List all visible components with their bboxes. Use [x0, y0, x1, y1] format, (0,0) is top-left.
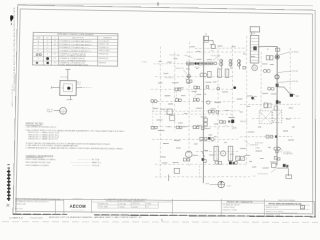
leader label H8a	[244, 140, 259, 146]
svg-text:REDUCED COPY OF MEASURED DRAWI: REDUCED COPY OF MEASURED DRAWING - HANGA…	[49, 216, 142, 219]
junction box J1 detail	[60, 81, 77, 96]
bottom device B4 dark cluster	[229, 161, 237, 164]
device pair M5	[208, 110, 214, 113]
microfilm label gap	[67, 213, 94, 217]
right leader label R3	[277, 81, 298, 83]
wire branch V11	[199, 165, 201, 178]
wire branch V7	[239, 59, 241, 69]
inner border frame	[16, 9, 313, 214]
device pair M2	[175, 99, 181, 102]
detail top conduit stub	[65, 69, 70, 80]
label lead B	[210, 55, 220, 60]
device pair M4c	[194, 86, 200, 89]
left margin sprocket marks	[7, 164, 9, 165]
boxes along riser V1	[204, 118, 207, 126]
title block frame	[16, 199, 314, 219]
light fixture F3	[218, 69, 222, 78]
V2 cluster Q1	[274, 147, 280, 153]
dark cluster on V2 mid	[276, 100, 281, 104]
AECOM logo cell	[63, 198, 91, 216]
leader label H8b	[277, 146, 290, 154]
feeder elbow to arrow	[277, 87, 290, 94]
north arrow circle	[218, 181, 225, 188]
wire jumper H11	[258, 45, 277, 48]
svg-text:TX-116 12/18: TX-116 12/18	[30, 217, 43, 219]
switchgear pair G1	[266, 55, 273, 60]
switch box S1	[205, 34, 216, 52]
light fixture F1	[200, 73, 207, 77]
device M5b	[216, 111, 219, 114]
wiring notes heading	[26, 124, 44, 126]
motor P4	[221, 151, 226, 156]
svg-text:LC-HAER B-31: LC-HAER B-31	[9, 217, 24, 220]
tall fixture P3	[214, 146, 219, 161]
device row N3	[193, 126, 199, 129]
device near ladder	[243, 66, 246, 69]
panel G3	[264, 103, 278, 110]
left edge label	[141, 61, 147, 63]
wire branch V13	[253, 64, 255, 66]
light fixture F4	[225, 69, 229, 78]
bottom right small note	[253, 176, 256, 178]
right leader label R1	[277, 51, 299, 55]
wire dashed H8	[240, 136, 292, 138]
device cluster A2	[185, 79, 192, 83]
column grid dashed horizontals	[150, 51, 251, 178]
sheet bottom heavy border	[13, 214, 315, 216]
lamp pair L2	[229, 60, 232, 66]
wire dashed H6 long	[152, 110, 240, 113]
receptacle R1	[187, 75, 191, 78]
detail left wire with tick	[51, 86, 60, 89]
bottom registration tick	[161, 219, 163, 222]
bottom device B2 dark	[200, 151, 207, 162]
lamp pair L1	[220, 59, 223, 65]
label lead D	[165, 77, 174, 79]
connector stubs	[153, 88, 196, 126]
switchgear pair G2	[263, 69, 270, 72]
left margin x mark	[6, 204, 9, 207]
svg-text:HAER TX-116 SHEET 12: HAER TX-116 SHEET 12	[11, 84, 14, 107]
cluster on H8	[266, 135, 277, 138]
wire riser V1	[203, 36, 205, 183]
detail right labels	[77, 82, 82, 86]
device pair left of V2	[268, 87, 274, 90]
wire dashed H6c right	[252, 118, 300, 120]
bottom device B3	[215, 161, 221, 164]
lamp pair L3	[237, 60, 240, 66]
device left of riser	[201, 127, 204, 130]
device M4	[206, 86, 209, 89]
device pair M1	[151, 100, 157, 103]
V2 box Q3	[272, 163, 276, 167]
small square N5	[174, 168, 179, 173]
feeder switch T4	[276, 84, 279, 87]
bottom paper edge	[2, 221, 318, 224]
junction box J2 top	[204, 36, 213, 45]
feeder dark junction T5	[290, 94, 295, 97]
junction dark dot right	[251, 97, 255, 100]
device pair M3	[193, 98, 199, 101]
title block project cell	[221, 199, 264, 217]
top paper edge	[17, 4, 313, 6]
outlet cluster on H1	[186, 59, 216, 69]
left margin ink blob	[10, 15, 13, 22]
label lead C	[175, 68, 186, 74]
equipment cluster P2 dark	[220, 119, 235, 127]
transformer T1	[252, 65, 258, 71]
top registration tick	[157, 2, 159, 5]
general references list	[25, 157, 101, 167]
wire and conduit code table	[32, 32, 118, 67]
svg-text:PHOTOGRAPHS AND WRITTEN HISTOR: PHOTOGRAPHS AND WRITTEN HISTORICAL AND D…	[13, 7, 16, 91]
wiring notes text	[25, 125, 125, 150]
wire branch V4	[188, 64, 190, 79]
detail label above	[60, 77, 69, 79]
wire dashed H6b right	[240, 103, 300, 105]
device circle M4d	[207, 101, 210, 104]
right leader label R4	[295, 95, 299, 98]
pad label	[240, 120, 248, 123]
column grid dashed verticals	[159, 35, 290, 180]
right leader label R2	[277, 70, 298, 73]
wire branch V6	[230, 59, 232, 69]
detail bottom stub	[66, 95, 72, 104]
circle fixture N4	[185, 151, 192, 158]
general references heading	[26, 155, 55, 158]
wire branch V5	[221, 59, 223, 69]
feeder meter T3	[275, 75, 279, 79]
label lead A	[169, 54, 192, 58]
plan annotation marks	[152, 44, 295, 169]
junction dark dot	[234, 87, 236, 89]
title block record cell	[264, 199, 309, 217]
bottom device B1	[183, 158, 190, 161]
device pair M4b	[175, 88, 181, 91]
bottom right labels	[255, 143, 293, 176]
V2 cluster Q2	[274, 156, 280, 160]
tall fixture P5	[228, 146, 233, 161]
wire branch V10	[167, 175, 169, 182]
scale note	[206, 183, 232, 187]
wire feeder V2	[276, 46, 278, 165]
transformer pad dashed squares	[259, 110, 282, 125]
light fixture F2	[208, 71, 212, 77]
title block middle grid	[91, 198, 172, 216]
bottom right elbow	[277, 168, 292, 179]
title block left section	[15, 198, 64, 216]
wire bus H1	[153, 63, 213, 65]
junction square M6	[167, 109, 175, 121]
V2 top device	[267, 48, 280, 51]
device row N2	[176, 126, 182, 129]
bottom device B5 boxes	[236, 156, 245, 160]
detail callout bubble	[47, 107, 67, 114]
dark cluster Q4	[283, 164, 289, 167]
equipment cluster P1	[199, 137, 215, 142]
detail right dashed wire	[76, 86, 92, 88]
feeder tap blob T2	[275, 55, 279, 59]
wire dashed H2	[195, 47, 247, 49]
table legend symbols	[36, 54, 49, 64]
meter box above panel	[250, 27, 260, 36]
panelboard PNL-2A schedule	[250, 32, 259, 63]
device row N1	[151, 126, 157, 129]
device on row 89 right	[217, 87, 220, 90]
